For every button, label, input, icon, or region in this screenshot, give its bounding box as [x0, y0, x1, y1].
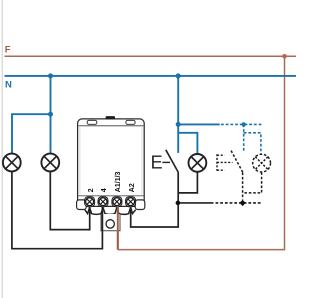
svg-text:E: E [151, 152, 163, 172]
svg-text:2: 2 [88, 188, 95, 192]
svg-text:N: N [5, 80, 12, 91]
svg-text:A2: A2 [129, 183, 136, 192]
svg-text:A1/1/3: A1/1/3 [115, 171, 122, 192]
svg-text:4: 4 [101, 188, 108, 192]
svg-text:F: F [5, 45, 11, 56]
